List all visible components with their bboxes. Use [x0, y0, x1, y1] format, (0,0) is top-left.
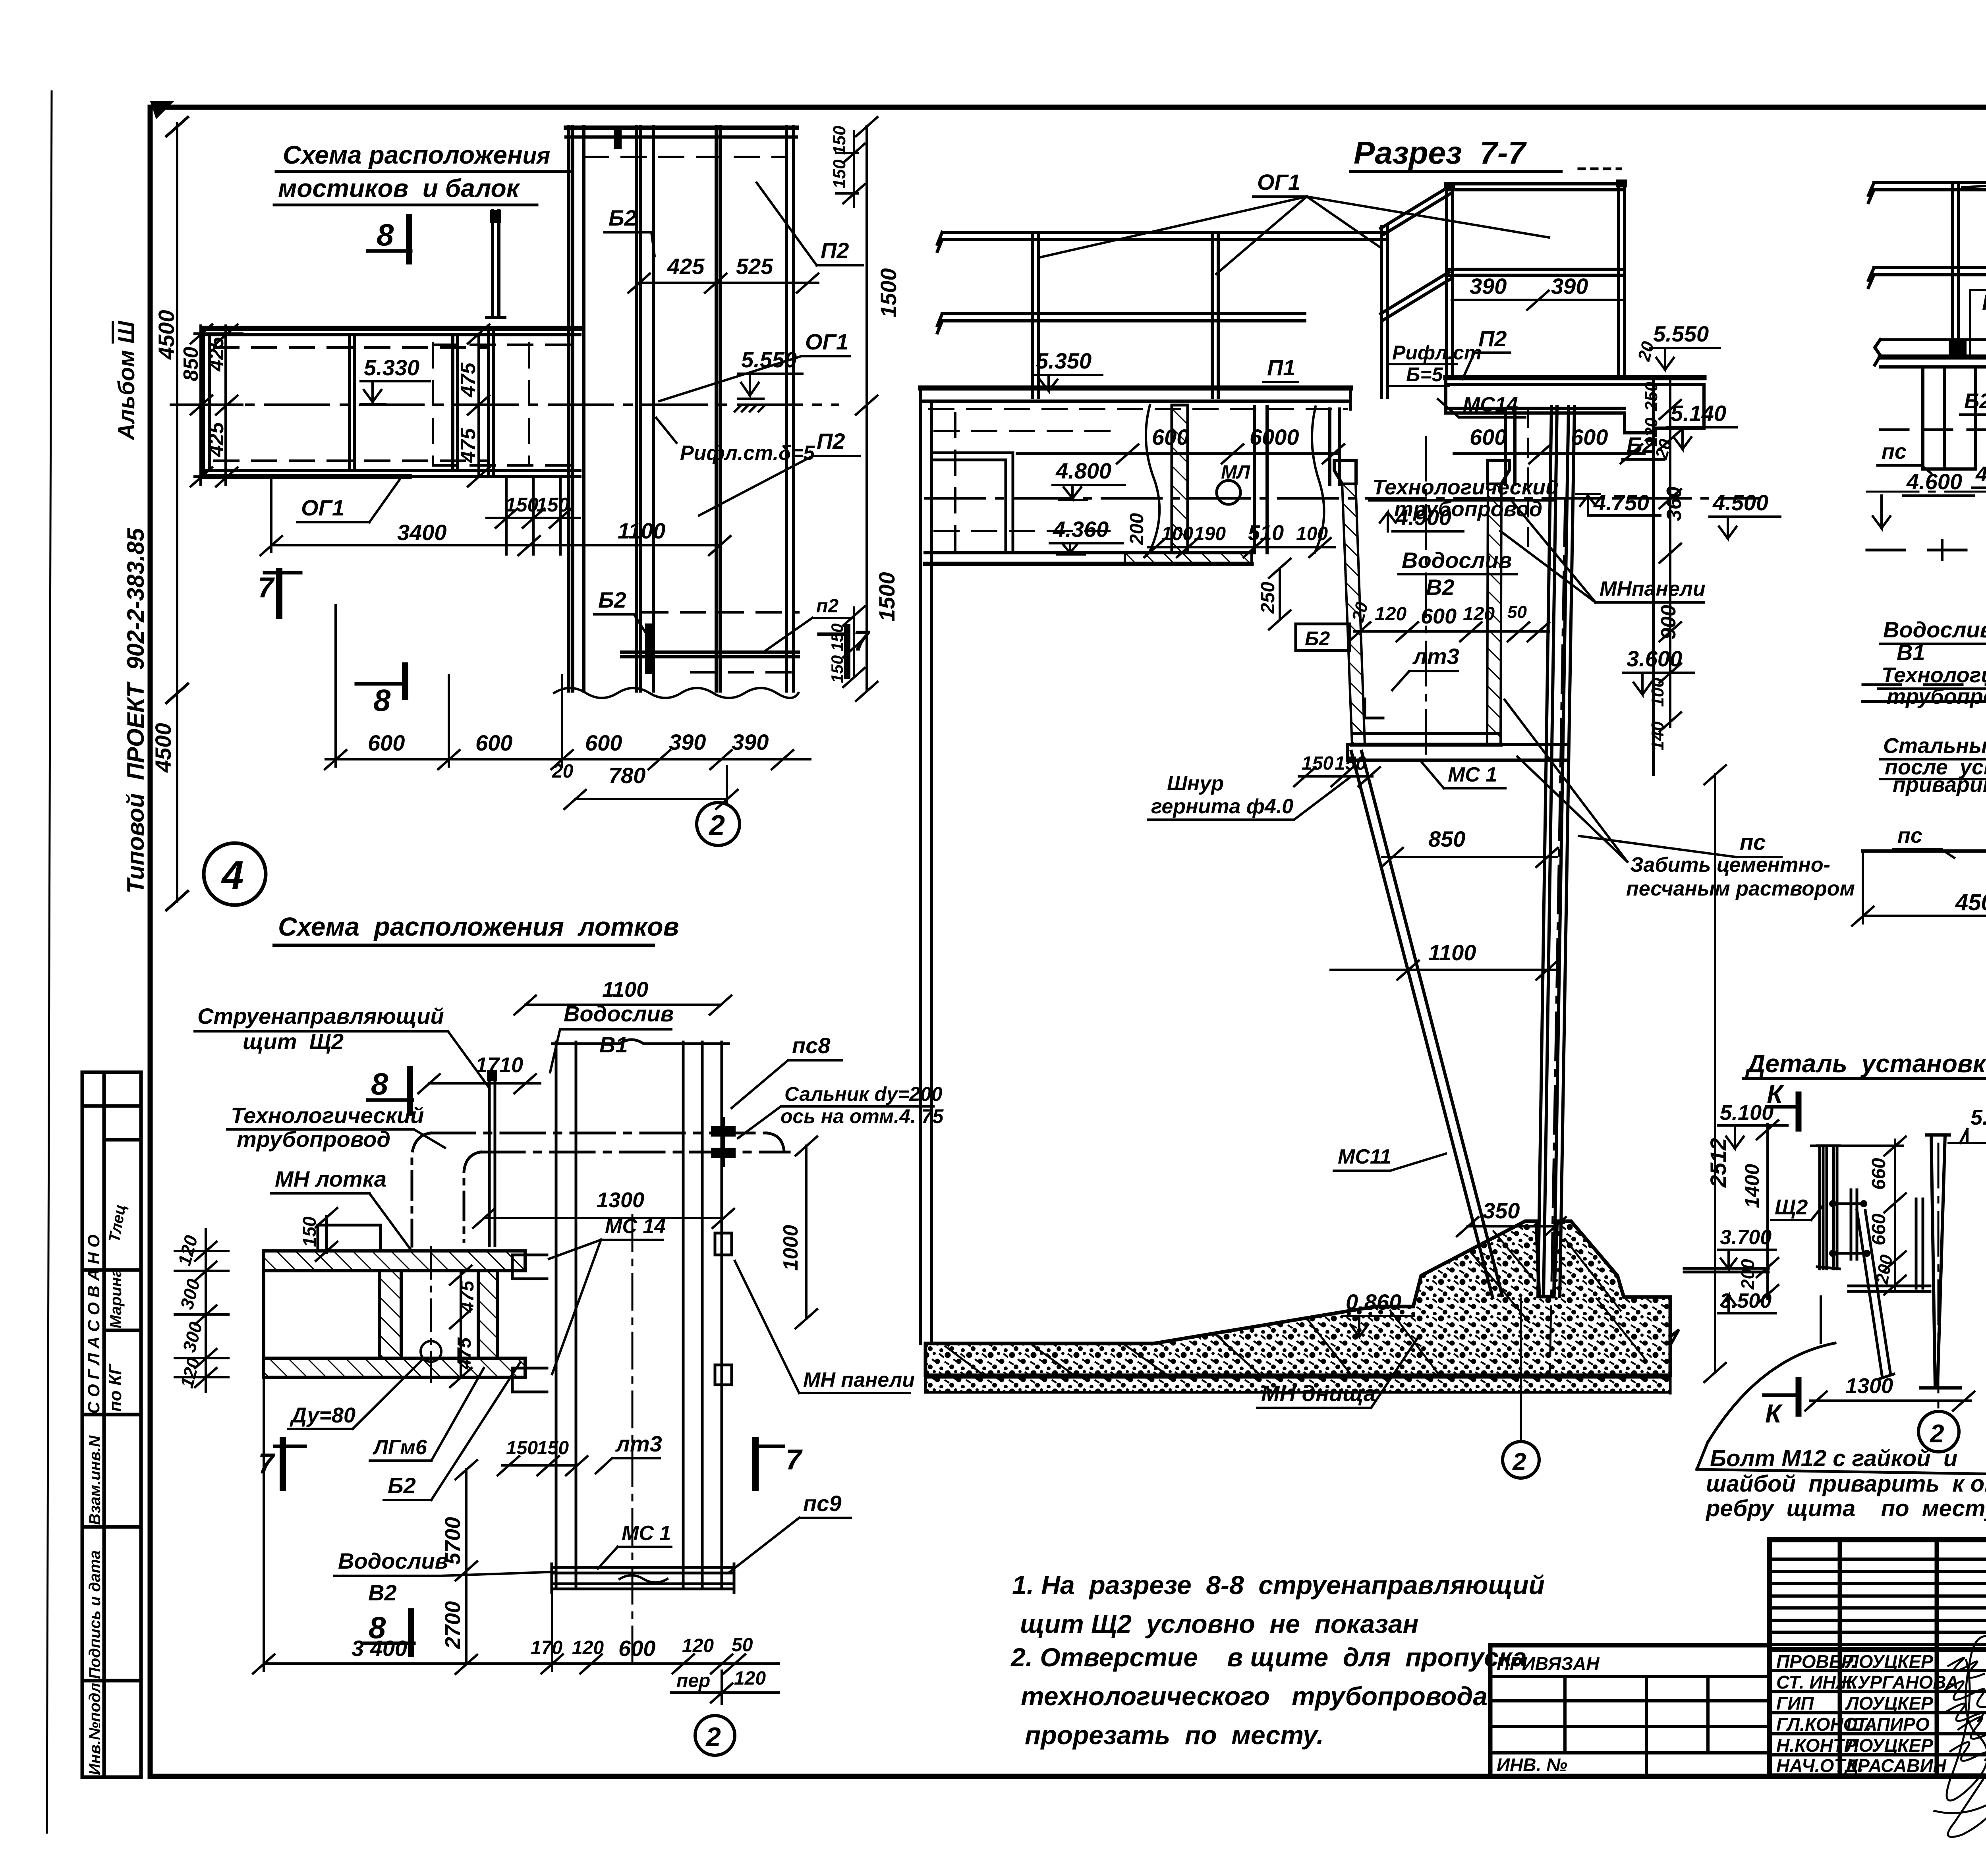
- svg-text:Б2: Б2: [598, 587, 626, 612]
- svg-text:4.360: 4.360: [1053, 517, 1109, 542]
- svg-text:250: 250: [1258, 582, 1279, 614]
- svg-text:120: 120: [734, 1668, 766, 1689]
- svg-text:Схема расположения: Схема расположения: [283, 141, 550, 169]
- svg-text:прорезать по месту.: прорезать по месту.: [1025, 1720, 1324, 1750]
- svg-text:7: 7: [258, 1448, 275, 1480]
- svg-text:250: 250: [1642, 382, 1661, 411]
- svg-text:120: 120: [682, 1635, 714, 1656]
- svg-text:пс: пс: [1897, 824, 1922, 847]
- svg-text:Разрез 7-7: Разрез 7-7: [1354, 135, 1527, 170]
- svg-text:1400: 1400: [1741, 1164, 1763, 1208]
- svg-text:Рифл.ст.δ=5: Рифл.ст.δ=5: [680, 442, 815, 465]
- svg-text:5.550: 5.550: [1653, 321, 1709, 346]
- svg-text:510: 510: [1248, 521, 1284, 545]
- svg-text:120: 120: [176, 1355, 204, 1390]
- svg-text:1100: 1100: [618, 518, 665, 543]
- svg-text:850: 850: [1428, 826, 1465, 851]
- svg-text:МС 14: МС 14: [605, 1215, 666, 1238]
- svg-text:150: 150: [828, 655, 846, 683]
- svg-text:ЛГм6: ЛГм6: [372, 1436, 427, 1459]
- svg-text:7: 7: [258, 572, 275, 604]
- svg-text:1710: 1710: [475, 1053, 523, 1077]
- svg-text:660: 660: [1868, 1214, 1889, 1245]
- svg-text:150: 150: [830, 125, 849, 155]
- svg-text:2: 2: [708, 810, 725, 841]
- svg-text:П1: П1: [1267, 355, 1295, 380]
- svg-text:ЛОУЦКЕР: ЛОУЦКЕР: [1845, 1651, 1933, 1672]
- svg-text:100: 100: [1296, 523, 1328, 544]
- svg-text:4500: 4500: [154, 310, 179, 360]
- svg-text:3 400: 3 400: [352, 1636, 407, 1661]
- svg-text:В2: В2: [1426, 575, 1455, 600]
- svg-text:ОГ1: ОГ1: [301, 495, 344, 520]
- svg-text:2: 2: [705, 1722, 721, 1752]
- svg-text:390: 390: [1551, 274, 1588, 299]
- svg-text:1100: 1100: [602, 978, 648, 1002]
- svg-text:лт3: лт3: [1412, 644, 1459, 669]
- svg-text:600: 600: [475, 730, 512, 755]
- svg-text:КУРГАНОВА: КУРГАНОВА: [1846, 1672, 1959, 1693]
- svg-text:КРАСАВИН: КРАСАВИН: [1846, 1755, 1947, 1776]
- svg-text:С О Г Л А С О В А Н О: С О Г Л А С О В А Н О: [84, 1235, 103, 1414]
- svg-text:ребру щита по месту: ребру щита по месту: [1705, 1496, 1986, 1521]
- svg-text:4.600: 4.600: [1906, 469, 1962, 494]
- svg-text:1300: 1300: [1845, 1374, 1893, 1398]
- svg-text:шайбой приварить к опорному: шайбой приварить к опорному: [1706, 1471, 1986, 1497]
- svg-text:7: 7: [786, 1444, 803, 1476]
- svg-text:гернита ф4.0: гернита ф4.0: [1151, 795, 1293, 818]
- svg-text:Технологический: Технологический: [1882, 663, 1986, 687]
- svg-text:190: 190: [1194, 523, 1226, 544]
- svg-text:170: 170: [531, 1637, 562, 1658]
- svg-text:Взам.инв.N: Взам.инв.N: [86, 1435, 104, 1525]
- svg-text:3.600: 3.600: [1627, 646, 1682, 671]
- svg-text:Марина: Марина: [107, 1268, 125, 1328]
- svg-text:ЛОУЦКЕР: ЛОУЦКЕР: [1845, 1735, 1933, 1756]
- svg-text:5.350: 5.350: [1036, 348, 1092, 373]
- svg-text:Рифл.ст: Рифл.ст: [1392, 342, 1482, 364]
- svg-text:В2: В2: [368, 1580, 397, 1605]
- svg-text:600: 600: [585, 730, 622, 755]
- svg-text:1500: 1500: [874, 572, 899, 621]
- svg-text:475: 475: [457, 362, 480, 398]
- svg-text:Б2: Б2: [388, 1473, 416, 1498]
- svg-text:Тлец: Тлец: [106, 1203, 129, 1243]
- svg-text:4500: 4500: [1955, 890, 1986, 915]
- svg-text:Болт М12 с гайкой и: Болт М12 с гайкой и: [1710, 1446, 1957, 1471]
- svg-text:150: 150: [1302, 753, 1333, 774]
- svg-text:Б2: Б2: [1627, 432, 1655, 457]
- svg-text:5.330: 5.330: [364, 355, 419, 380]
- svg-text:5.140: 5.140: [1671, 401, 1726, 426]
- svg-text:приварить: приварить: [1893, 773, 1986, 797]
- svg-text:К: К: [1765, 1399, 1783, 1428]
- svg-text:лт3: лт3: [615, 1431, 662, 1456]
- svg-text:Б=5: Б=5: [1406, 363, 1443, 386]
- svg-text:4.750: 4.750: [1593, 490, 1649, 515]
- svg-text:2512: 2512: [1706, 1138, 1731, 1188]
- svg-text:150: 150: [830, 159, 849, 189]
- svg-text:Б2: Б2: [1964, 389, 1986, 413]
- svg-text:2: 2: [1512, 1448, 1526, 1476]
- svg-text:МС11: МС11: [1338, 1145, 1391, 1168]
- svg-text:Типовой ПРОЕКТ 902-2-383.85: Типовой ПРОЕКТ 902-2-383.85: [122, 527, 149, 894]
- svg-text:390: 390: [669, 730, 706, 755]
- svg-text:Технологический: Технологический: [1372, 475, 1559, 499]
- svg-text:600: 600: [1470, 425, 1507, 450]
- svg-text:щит Щ2 условно не показан: щит Щ2 условно не показан: [1020, 1609, 1418, 1639]
- svg-text:4.800: 4.800: [1055, 458, 1111, 483]
- svg-text:200: 200: [1126, 513, 1148, 545]
- svg-text:4.75: 4.75: [1975, 462, 1986, 486]
- svg-text:П2: П2: [1982, 291, 1986, 315]
- svg-text:1100: 1100: [1428, 940, 1476, 965]
- svg-text:600: 600: [1571, 425, 1608, 450]
- svg-text:Ду=80: Ду=80: [290, 1403, 355, 1427]
- svg-text:МНпанели: МНпанели: [1600, 577, 1706, 600]
- svg-text:350: 350: [1483, 1198, 1520, 1223]
- svg-text:4: 4: [221, 853, 244, 897]
- svg-text:ГИП: ГИП: [1776, 1693, 1814, 1714]
- svg-text:120: 120: [1375, 604, 1406, 625]
- svg-text:120: 120: [174, 1233, 201, 1268]
- svg-text:475: 475: [454, 1337, 475, 1370]
- svg-text:4500: 4500: [151, 723, 176, 773]
- svg-text:ПРОВЕР.: ПРОВЕР.: [1776, 1651, 1856, 1672]
- svg-text:Инв.№подл: Инв.№подл: [86, 1683, 104, 1775]
- svg-text:2700: 2700: [441, 1601, 465, 1649]
- svg-text:660: 660: [1868, 1158, 1889, 1190]
- svg-text:технологического трубопровод: технологического трубопровода: [1021, 1681, 1488, 1711]
- svg-text:по КГ: по КГ: [106, 1363, 125, 1412]
- svg-text:780: 780: [609, 763, 645, 788]
- svg-text:Шнур: Шнур: [1167, 772, 1224, 795]
- svg-text:425: 425: [667, 254, 705, 279]
- svg-text:Стальные клинья: Стальные клинья: [1883, 734, 1986, 758]
- svg-text:8: 8: [377, 217, 394, 252]
- svg-text:Струенаправляющий: Струенаправляющий: [197, 1004, 444, 1029]
- svg-text:600: 600: [1152, 425, 1189, 450]
- svg-text:475: 475: [457, 428, 480, 463]
- svg-text:1. На разрезе 8-8 струенапр: 1. На разрезе 8-8 струенаправляющий: [1012, 1570, 1545, 1600]
- svg-text:Подпись и дата: Подпись и дата: [86, 1550, 104, 1679]
- svg-text:Водослив: Водослив: [1883, 617, 1986, 642]
- svg-text:П2: П2: [1478, 326, 1507, 351]
- svg-text:100: 100: [1161, 523, 1193, 544]
- svg-text:МН лотка: МН лотка: [275, 1166, 386, 1191]
- svg-text:150: 150: [828, 623, 846, 651]
- svg-text:ШАПИРО: ШАПИРО: [1846, 1714, 1930, 1735]
- svg-text:5.550: 5.550: [741, 347, 797, 372]
- svg-text:ЛОУЦКЕР: ЛОУЦКЕР: [1845, 1693, 1933, 1714]
- svg-text:20: 20: [552, 761, 574, 782]
- svg-text:300: 300: [176, 1277, 204, 1312]
- svg-text:525: 525: [736, 254, 773, 279]
- svg-text:Схема расположения лотков: Схема расположения лотков: [278, 912, 679, 941]
- svg-text:50: 50: [732, 1635, 753, 1656]
- svg-text:6000: 6000: [1250, 425, 1299, 450]
- svg-text:ОГ1: ОГ1: [1257, 170, 1300, 195]
- svg-text:390: 390: [732, 730, 769, 755]
- svg-text:150: 150: [506, 1438, 538, 1459]
- svg-text:П2: П2: [817, 428, 845, 454]
- svg-text:850: 850: [180, 347, 203, 381]
- svg-text:100: 100: [1648, 677, 1667, 707]
- svg-text:Деталь установки щитаЩ2: Деталь установки щитаЩ2: [1745, 1049, 1986, 1078]
- svg-text:пер: пер: [676, 1670, 710, 1691]
- svg-text:1500: 1500: [876, 268, 901, 318]
- svg-text:Водослив: Водослив: [1402, 548, 1512, 573]
- svg-text:3.700: 3.700: [1720, 1226, 1772, 1249]
- svg-text:4.500: 4.500: [1712, 490, 1768, 515]
- svg-text:Щ2: Щ2: [1775, 1195, 1808, 1219]
- svg-text:пс8: пс8: [792, 1033, 831, 1058]
- svg-text:425: 425: [205, 422, 228, 457]
- svg-text:600: 600: [1421, 604, 1457, 628]
- svg-text:Б2: Б2: [609, 205, 637, 230]
- svg-text:900: 900: [1657, 605, 1680, 639]
- svg-text:1000: 1000: [779, 1225, 802, 1271]
- svg-text:300: 300: [178, 1320, 206, 1355]
- svg-text:2: 2: [1930, 1419, 1944, 1448]
- svg-text:МС 1: МС 1: [1448, 763, 1497, 786]
- svg-text:150: 150: [537, 1438, 569, 1459]
- svg-text:Альбом Ш: Альбом Ш: [114, 320, 139, 441]
- svg-text:1300: 1300: [597, 1188, 644, 1212]
- svg-text:5.140: 5.140: [1971, 1106, 1986, 1129]
- svg-text:П2: П2: [821, 238, 849, 263]
- svg-text:8: 8: [371, 1066, 388, 1101]
- svg-text:Б2: Б2: [1305, 627, 1330, 650]
- svg-text:5.100: 5.100: [1720, 1101, 1773, 1125]
- svg-text:МС 1: МС 1: [622, 1522, 671, 1545]
- svg-text:пс: пс: [1740, 830, 1766, 855]
- svg-text:п2: п2: [816, 596, 838, 617]
- svg-text:600: 600: [368, 730, 405, 755]
- svg-text:200: 200: [1737, 1259, 1758, 1290]
- svg-text:Сальник dy=200: Сальник dy=200: [784, 1083, 943, 1105]
- svg-text:Технологический: Технологический: [231, 1103, 424, 1128]
- svg-text:пс9: пс9: [803, 1491, 842, 1516]
- svg-text:Водослив: Водослив: [564, 1001, 674, 1026]
- svg-text:ОГ1: ОГ1: [805, 329, 848, 354]
- svg-text:4.900: 4.900: [1395, 505, 1451, 530]
- svg-text:425: 425: [205, 336, 228, 372]
- svg-text:600: 600: [618, 1636, 655, 1661]
- svg-text:2. Отверстие в щите для п: 2. Отверстие в щите для пропуска: [1010, 1642, 1527, 1672]
- svg-text:щит Щ2: щит Щ2: [243, 1029, 344, 1054]
- svg-text:мостиков и балок: мостиков и балок: [278, 174, 521, 203]
- svg-text:50: 50: [1507, 602, 1527, 622]
- svg-text:ИНВ. №: ИНВ. №: [1497, 1754, 1567, 1775]
- svg-text:песчаным раствором: песчаным раствором: [1626, 877, 1855, 900]
- svg-text:Водослив: Водослив: [338, 1548, 448, 1573]
- svg-text:390: 390: [1470, 274, 1507, 299]
- svg-text:140: 140: [1648, 721, 1667, 751]
- svg-text:МН панели: МН панели: [803, 1368, 915, 1392]
- svg-text:пс: пс: [1882, 440, 1907, 463]
- svg-text:120: 120: [1463, 604, 1495, 625]
- svg-text:СТ. ИНЖ.: СТ. ИНЖ.: [1776, 1672, 1858, 1693]
- svg-text:8: 8: [373, 683, 391, 718]
- svg-text:3400: 3400: [397, 520, 447, 545]
